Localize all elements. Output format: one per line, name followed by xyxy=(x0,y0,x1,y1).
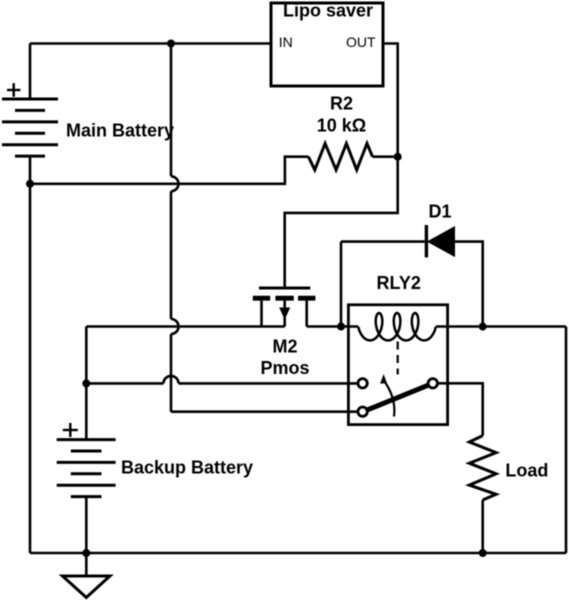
polarity plus sign for Backup Battery xyxy=(63,423,78,437)
svg-text:OUT: OUT xyxy=(346,34,376,50)
svg-text:10 kΩ: 10 kΩ xyxy=(317,116,366,136)
transistor M2 source drain and body leads xyxy=(260,301,263,327)
junction: Load bottom / ground rail node xyxy=(479,549,487,557)
transistor M2 channel bars xyxy=(253,296,316,301)
transistor M2 gate lead plate xyxy=(259,287,310,290)
relay RLY2 armature link dashed line xyxy=(397,342,399,375)
junction: backup battery negative / ground rail node xyxy=(82,549,90,557)
junction: backup battery positive / contact wire node xyxy=(82,379,90,387)
svg-text:Lipo saver: Lipo saver xyxy=(283,1,373,21)
wire: backup battery negative lead to ground rail xyxy=(85,497,88,553)
wire hop: mid rail over M2 source wire xyxy=(171,319,179,334)
wire: D1 left branch down to coil node xyxy=(340,242,343,327)
svg-text:IN: IN xyxy=(279,34,293,50)
junction: top rail / mid rail tap xyxy=(167,40,175,48)
wire: backup battery branch vertical xyxy=(85,327,88,440)
svg-text:R2: R2 xyxy=(330,94,353,114)
wire: left rail down from battery junction to bottom rail xyxy=(29,184,32,553)
relay RLY2 coil xyxy=(358,313,436,340)
junction: coil right / D1 right node xyxy=(479,323,487,331)
wire: D1 anode loop top left xyxy=(341,240,425,243)
relay RLY2 actuation arrow xyxy=(383,380,394,417)
wire: R2 right lead to OUT node xyxy=(373,155,398,158)
resistor Load zigzag xyxy=(469,436,496,500)
wire: mid rail vertical with hops (tap to relay lower contact) xyxy=(170,44,173,412)
relay RLY2 contact circles xyxy=(358,379,438,417)
diode D1 triangle xyxy=(428,227,455,256)
junction: R2 right / Lipo OUT / gate rail node xyxy=(394,153,402,161)
battery B1 Main Battery plates xyxy=(2,99,58,156)
resistor R2 zigzag xyxy=(308,144,372,170)
wire: right rail down to bottom rail xyxy=(565,327,568,554)
wire: main battery negative rail to R2 left lead xyxy=(30,157,308,184)
battery B2 Backup Battery plates xyxy=(57,440,116,497)
svg-text:D1: D1 xyxy=(428,202,451,222)
junction: M2 drain / D1 left / coil node xyxy=(337,323,345,331)
wire: top rail from Main Battery positive to Lipo saver IN xyxy=(30,42,271,45)
wire: Lipo saver OUT down to R2 right node xyxy=(383,44,398,157)
wire: M2 drain to relay coil node xyxy=(307,325,359,328)
wire: relay coil right to right rail xyxy=(436,325,566,328)
svg-text:Load: Load xyxy=(505,461,548,481)
wire: Load bottom to ground rail xyxy=(481,500,484,553)
wire: relay common contact to Load top xyxy=(438,383,483,435)
relay RLY2 box xyxy=(348,305,447,425)
svg-text:RLY2: RLY2 xyxy=(377,273,421,293)
wire: Main Battery negative lead xyxy=(29,156,32,184)
wire: Main Battery positive lead xyxy=(29,44,32,100)
transistor M2 body arrow xyxy=(279,308,290,320)
wire: bottom ground rail xyxy=(30,552,566,555)
relay RLY2 switch arm xyxy=(367,385,429,410)
wire: D1 cathode side to right branch xyxy=(455,242,483,327)
wire hop: contact wire over mid rail xyxy=(164,376,179,383)
svg-text:Main Battery: Main Battery xyxy=(66,121,174,141)
module U1 Lipo saver box xyxy=(271,3,383,86)
wire: M2 source wire from backup battery branch xyxy=(86,325,284,328)
svg-text:M2: M2 xyxy=(272,337,297,357)
wire: mid rail to relay lower-left contact xyxy=(171,410,358,413)
wire: R2 node down and across to M2 gate xyxy=(285,157,398,287)
wire: backup battery top to relay upper-left contact (hop over mid rail) xyxy=(86,382,357,385)
ground symbol xyxy=(85,553,88,576)
diode D1 cathode bar xyxy=(425,225,428,257)
wire hop: mid rail over negative rail xyxy=(171,176,179,191)
polarity plus sign for Main Battery xyxy=(7,83,20,97)
junction: main battery negative node xyxy=(26,180,34,188)
svg-text:Backup Battery: Backup Battery xyxy=(121,458,253,478)
svg-text:Pmos: Pmos xyxy=(260,358,309,378)
